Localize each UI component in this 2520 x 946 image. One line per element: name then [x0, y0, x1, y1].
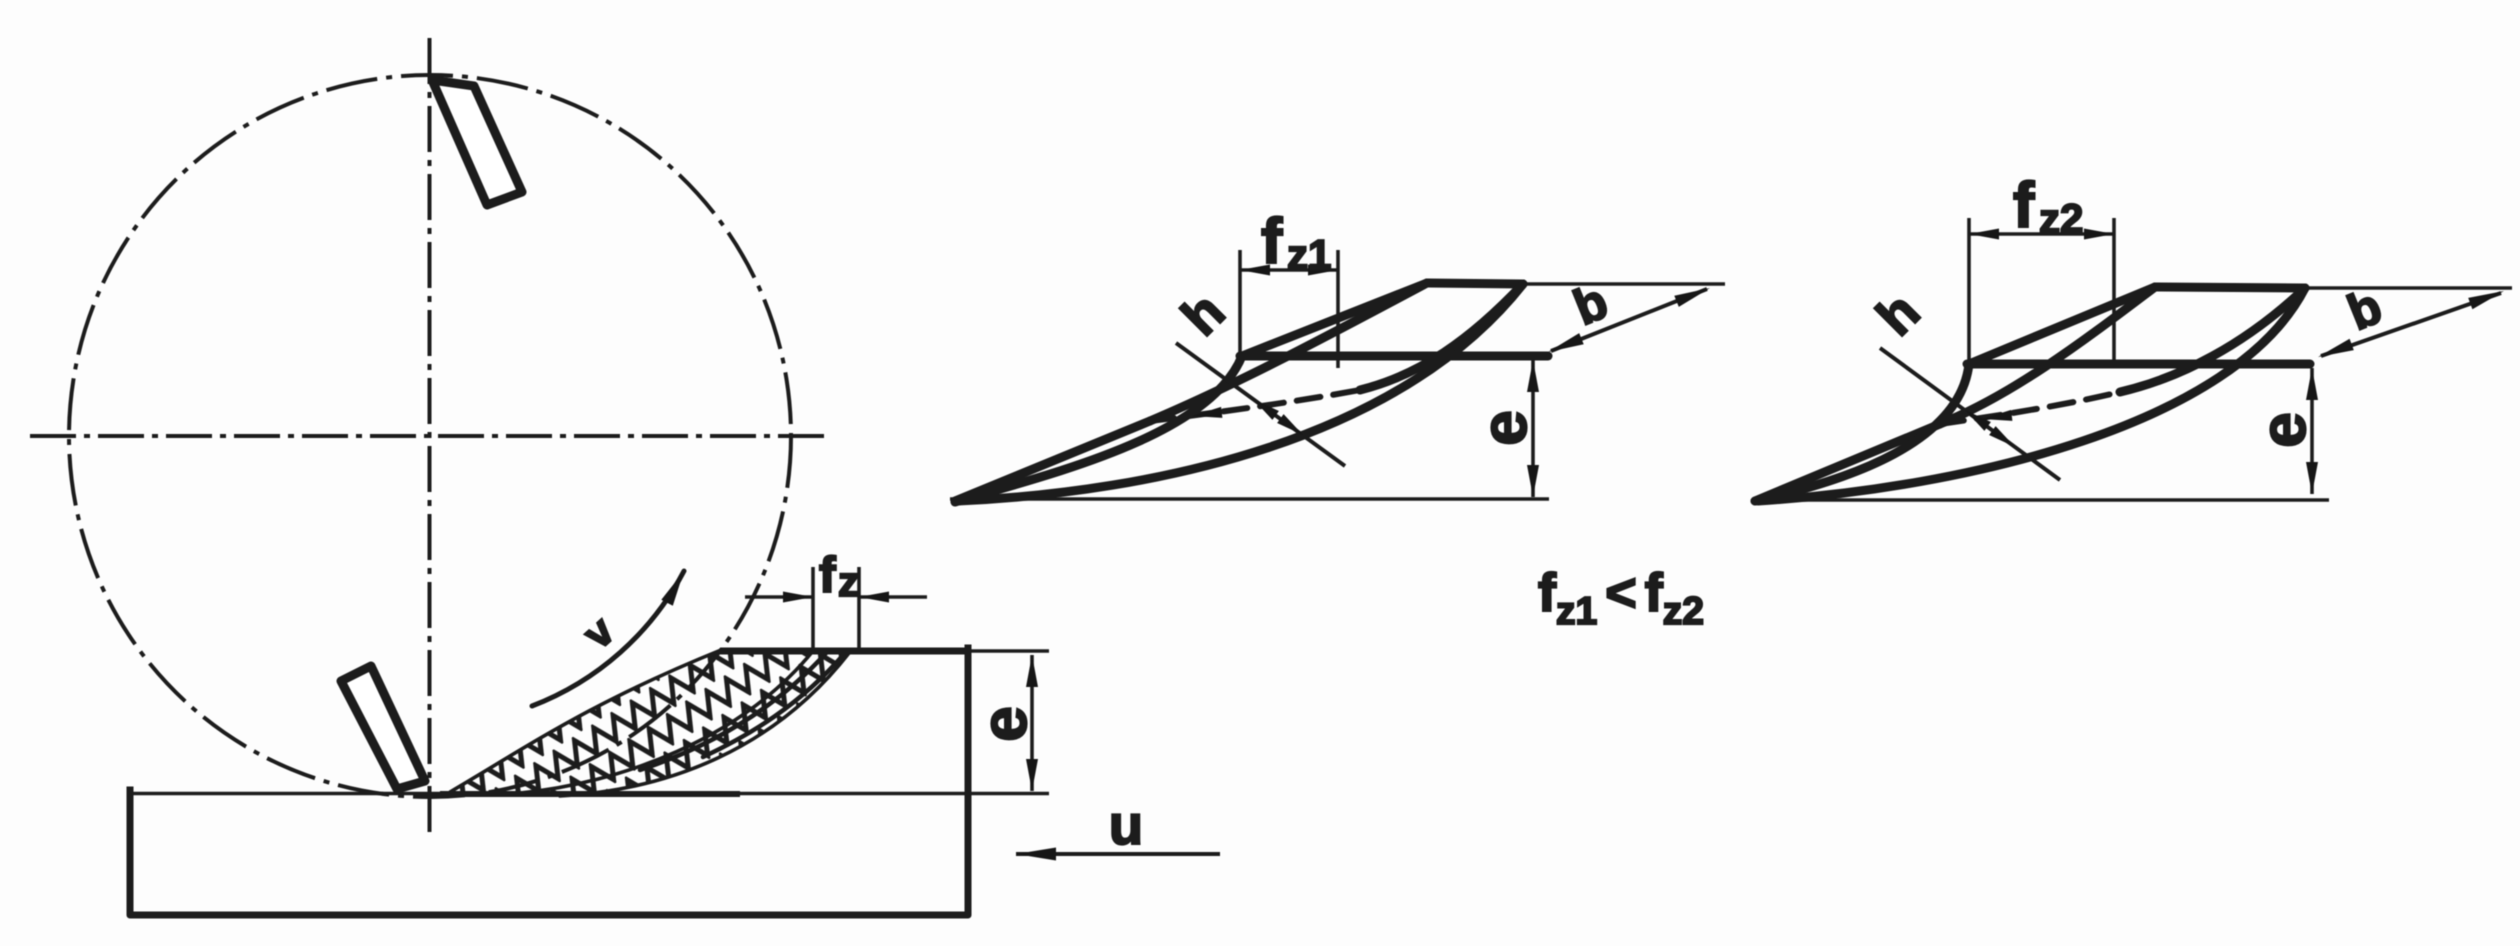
svg-text:e: e	[968, 706, 1040, 742]
svg-text:h: h	[1170, 281, 1236, 347]
svg-text:z: z	[838, 558, 859, 605]
svg-text:f: f	[819, 547, 836, 603]
svg-text:e: e	[1468, 410, 1540, 446]
svg-text:e: e	[2247, 412, 2319, 448]
svg-text:b: b	[1566, 273, 1615, 336]
svg-text:u: u	[1109, 793, 1143, 856]
svg-text:f: f	[2013, 169, 2035, 241]
svg-text:z1: z1	[1287, 231, 1331, 278]
svg-text:v: v	[574, 607, 623, 658]
svg-text:h: h	[1865, 281, 1931, 347]
svg-text:f: f	[1261, 205, 1283, 277]
svg-text:z2: z2	[2039, 195, 2083, 242]
svg-text:fz1<fz2: fz1<fz2	[1538, 563, 1704, 633]
